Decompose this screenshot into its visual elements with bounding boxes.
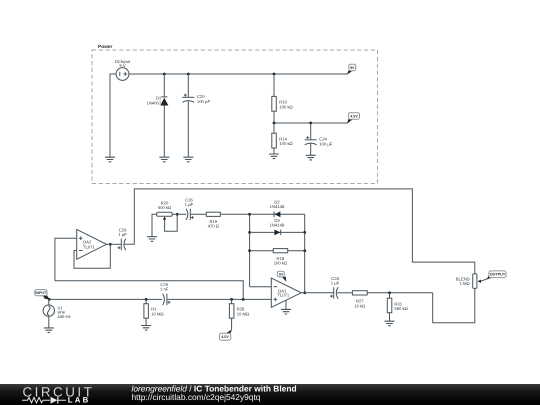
svg-text:560 kΩ: 560 kΩ xyxy=(394,306,407,311)
ground under C20 xyxy=(183,157,193,162)
footer bar xyxy=(0,384,540,405)
capacitor C25 1nF xyxy=(160,282,170,305)
ground under V1 xyxy=(44,328,54,333)
svg-text:Power: Power xyxy=(98,44,113,50)
OUTPUT flag xyxy=(487,271,506,279)
9V flag at OA1 supply xyxy=(277,271,286,281)
wire from DCInput left terminal to ground xyxy=(110,74,116,157)
footer credit line xyxy=(132,384,297,402)
wire R28 branch xyxy=(231,299,233,329)
wire R18 row xyxy=(250,250,305,252)
wire OA1 inverting input xyxy=(250,286,272,288)
svg-text:9V: 9V xyxy=(350,66,355,70)
svg-text:470 Ω: 470 Ω xyxy=(208,224,219,229)
svg-text:100 µF: 100 µF xyxy=(197,99,211,104)
resistor R31 560k xyxy=(387,298,407,313)
node on rail at C20 xyxy=(187,73,190,76)
wire OA2 feedback loop xyxy=(74,244,110,268)
wire V1 to ground xyxy=(48,316,50,328)
wire input bus right of C25 xyxy=(167,298,271,300)
CircuitLab logo wordmark xyxy=(23,385,95,405)
node at R28 tap xyxy=(230,298,233,301)
wire D3 row xyxy=(250,231,305,233)
node on rail at D1 xyxy=(163,73,166,76)
svg-text:440 Hz: 440 Hz xyxy=(57,314,70,319)
wire OA2 + input from node xyxy=(55,238,77,281)
resistor R1 10M xyxy=(144,304,164,319)
svg-text:1 nF: 1 nF xyxy=(160,287,169,292)
wire input bus left of C25 xyxy=(49,298,162,300)
node left rail top xyxy=(248,213,251,216)
svg-text:10 kΩ: 10 kΩ xyxy=(354,303,365,308)
svg-text:500 kΩ: 500 kΩ xyxy=(158,205,171,210)
wire D2 row xyxy=(250,213,305,215)
capacitor C29 1uF xyxy=(118,227,128,250)
node left rail R18 xyxy=(248,249,251,252)
node on rail at R10 xyxy=(273,73,276,76)
svg-text:100 kΩ: 100 kΩ xyxy=(274,261,287,266)
svg-text:1N4007: 1N4007 xyxy=(147,101,162,106)
wire 9V rail xyxy=(129,73,348,75)
4.5V flag at R28 bias xyxy=(219,329,232,340)
svg-text:100 µF: 100 µF xyxy=(319,142,333,147)
resistor R28 10M xyxy=(229,304,249,319)
node OA1 output xyxy=(303,291,306,294)
resistor R27 10k xyxy=(352,291,367,309)
wire diode network left rail xyxy=(249,214,251,286)
wire dry signal bus C29 to blend pot top xyxy=(125,189,475,274)
9V flag xyxy=(347,64,356,75)
wire C28 to R27 xyxy=(337,292,352,294)
svg-text:100 kΩ: 100 kΩ xyxy=(279,104,292,109)
wire R20 to C26 xyxy=(172,213,186,215)
svg-text:10 MΩ: 10 MΩ xyxy=(237,311,249,316)
svg-text:LAB: LAB xyxy=(68,396,91,405)
wire C20 branch xyxy=(187,74,189,157)
capacitor C26 1uF xyxy=(185,197,194,220)
ground under D1 xyxy=(159,157,169,162)
wire R19 to diode network xyxy=(220,213,249,215)
svg-text:1 µF: 1 µF xyxy=(331,281,340,286)
ground xyxy=(105,157,115,162)
node right rail R18 xyxy=(303,249,306,252)
svg-text:1 µF: 1 µF xyxy=(185,202,194,207)
svg-text:4.5V: 4.5V xyxy=(350,114,358,118)
resistor R10 100k xyxy=(272,96,293,111)
ground under R14 xyxy=(269,154,279,159)
wire C24 branch xyxy=(310,123,312,155)
wire R14 branch xyxy=(273,123,275,154)
resistor R18 100k xyxy=(273,249,287,266)
capacitor C24 100uF xyxy=(305,136,333,146)
node input junction xyxy=(48,298,51,301)
capacitor C28 1uF xyxy=(330,276,340,299)
wire 4.5V row xyxy=(274,122,347,124)
logo resistor-diode wire glyph xyxy=(22,397,66,404)
diode D2 1N4148 xyxy=(270,200,285,218)
wire R27 to blend return xyxy=(367,292,433,294)
4.5V flag (power rail) xyxy=(347,113,360,124)
potentiometer BLEND 1M xyxy=(456,274,488,289)
svg-text:TL071: TL071 xyxy=(83,245,96,250)
wire D1 branch xyxy=(163,74,165,157)
resistor R19 470 ohm xyxy=(206,212,220,228)
svg-text:9V: 9V xyxy=(279,273,284,277)
op-amp OA2 TL071 (buffer) xyxy=(77,229,107,259)
node at buffer bus junction xyxy=(242,298,245,301)
wire OA1 output to C28 xyxy=(301,292,333,294)
diode D1 1N4007 xyxy=(147,96,169,106)
node at C24 tap xyxy=(309,122,312,125)
ground at OA1 xyxy=(281,309,291,314)
wire R31 branch xyxy=(389,293,391,321)
wire R1 branch xyxy=(145,299,147,325)
op-amp OA1 TL071 (gain stage) xyxy=(271,278,301,307)
svg-text:1 µF: 1 µF xyxy=(118,232,127,237)
svg-text:INPUT: INPUT xyxy=(35,291,47,295)
potentiometer R20 500k xyxy=(157,200,178,231)
wire buffer tap bus xyxy=(55,281,243,300)
node at R10/R14 xyxy=(273,122,276,125)
voltage source V_DC DCInput 9V xyxy=(115,59,131,81)
resistor R14 100k xyxy=(272,133,293,148)
voltage source V1 sine 440Hz xyxy=(43,299,71,318)
svg-text:100 kΩ: 100 kΩ xyxy=(279,141,292,146)
svg-text:TL071: TL071 xyxy=(277,293,290,298)
ground under C24 xyxy=(306,155,316,160)
power section dashed enclosure xyxy=(92,44,378,184)
ground under R1 xyxy=(141,326,151,331)
diode D3 1N4148 xyxy=(270,218,285,235)
ground under R31 xyxy=(385,321,395,326)
wire C26 to R19 xyxy=(190,213,206,215)
wire OA1 V- pin to ground xyxy=(285,300,287,309)
wire R10 branch xyxy=(273,74,275,123)
ground at R20 xyxy=(147,237,157,242)
wire OA2 output xyxy=(107,243,122,245)
svg-text:1N4148: 1N4148 xyxy=(270,223,285,228)
svg-text:1 MΩ: 1 MΩ xyxy=(460,281,470,286)
wire R20 left terminal to ground xyxy=(152,214,157,236)
svg-text:4.5V: 4.5V xyxy=(221,335,229,339)
svg-text:http://circuitlab.com/c2qej542: http://circuitlab.com/c2qej542y9qtq xyxy=(132,392,261,402)
svg-text:1N4148: 1N4148 xyxy=(270,204,285,209)
wire diode network right rail xyxy=(304,214,306,292)
node R20 wiper tie xyxy=(176,213,179,216)
svg-text:OUTPUT: OUTPUT xyxy=(490,273,506,277)
node right rail D3 xyxy=(303,231,306,234)
node at R1 tap xyxy=(145,298,148,301)
svg-text:9 V: 9 V xyxy=(119,63,125,68)
capacitor C20 100uF xyxy=(182,94,210,104)
node OA2 output xyxy=(109,243,112,246)
svg-text:10 MΩ: 10 MΩ xyxy=(151,311,163,316)
node at R31 tap xyxy=(388,291,391,294)
wire wet signal to blend pot bottom xyxy=(433,288,475,322)
node left rail D3 xyxy=(248,231,251,234)
INPUT flag xyxy=(35,290,50,300)
